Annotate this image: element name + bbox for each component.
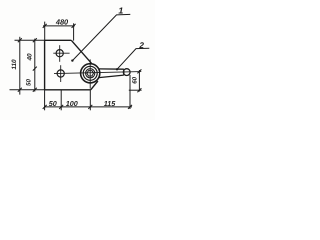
svg-text:100: 100 <box>66 99 78 108</box>
svg-text:115: 115 <box>104 99 116 108</box>
svg-text:40: 40 <box>26 53 33 62</box>
svg-text:50: 50 <box>25 79 32 86</box>
svg-text:480: 480 <box>55 18 69 27</box>
svg-text:2: 2 <box>138 41 144 50</box>
svg-text:50: 50 <box>49 99 57 108</box>
svg-text:60: 60 <box>132 76 139 83</box>
svg-text:1: 1 <box>118 5 123 15</box>
svg-text:110: 110 <box>11 59 18 70</box>
